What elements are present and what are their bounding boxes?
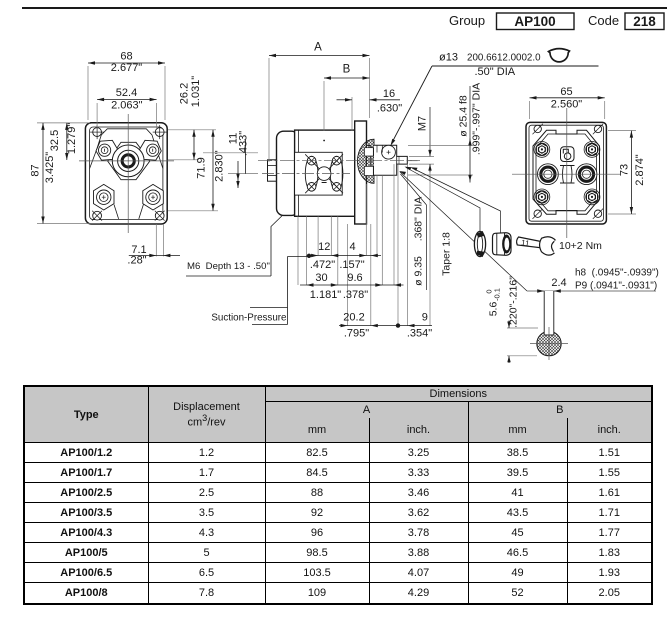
dim 26.2 ticks	[168, 130, 216, 160]
central boss hexagon	[108, 142, 150, 179]
gear plate octagon	[533, 130, 600, 214]
extension line 9.6 right	[393, 164, 395, 285]
dim o25.4 ticks	[408, 146, 473, 176]
svg-text:12: 12	[318, 241, 330, 253]
svg-text:16: 16	[383, 88, 395, 100]
dim 11	[227, 131, 249, 188]
extension line key slot front	[376, 175, 378, 255]
extension line flange face	[370, 224, 372, 326]
dim 12 text	[310, 241, 335, 271]
back view horizontal centerline	[512, 173, 620, 175]
shaft bore circles	[112, 145, 144, 177]
label Taper 1:8	[441, 232, 453, 276]
key slot edges on shaft	[377, 145, 382, 152]
bottom valley connectors	[114, 205, 143, 219]
svg-text:.157": .157"	[339, 259, 364, 271]
front view body outline	[85, 123, 167, 224]
casting outline	[90, 129, 163, 169]
svg-text:ø 25.4 f8: ø 25.4 f8	[458, 95, 470, 137]
wrench icon	[515, 232, 557, 256]
dim 4 text	[339, 241, 364, 271]
center bore circle	[317, 167, 331, 181]
woodruff key icon	[549, 49, 570, 62]
dim 7.1	[127, 244, 180, 267]
center web	[560, 166, 575, 184]
front view inner contour	[90, 127, 163, 220]
dim 9.6 arrows	[375, 283, 401, 286]
rear port boss	[268, 160, 277, 181]
port screw hole bottom-left	[307, 183, 316, 192]
dim 52.4	[97, 87, 157, 112]
dim 30 text	[310, 272, 342, 301]
svg-text:3.425": 3.425"	[44, 152, 56, 184]
svg-text:Group: Group	[449, 13, 485, 28]
stud nut bottom-right	[584, 189, 600, 205]
svg-text:.795": .795"	[344, 327, 369, 339]
dim 5.6 ticks	[507, 328, 538, 356]
svg-text:2.063": 2.063"	[111, 100, 143, 112]
svg-text:1.279": 1.279"	[66, 123, 78, 155]
dim 87	[30, 123, 57, 224]
dim 68	[88, 51, 165, 75]
leader o13 callout	[391, 51, 599, 146]
key detail centerlines	[530, 327, 568, 360]
dim row2 line	[300, 284, 404, 286]
svg-text:.378": .378"	[343, 289, 368, 301]
dim 9 arrow	[408, 324, 415, 327]
svg-text:200.6612.0002.0: 200.6612.0002.0	[467, 52, 541, 63]
back view body outline	[526, 122, 606, 224]
dim A	[269, 42, 370, 58]
svg-text:26.2: 26.2	[179, 83, 191, 104]
svg-text:M7: M7	[417, 116, 429, 131]
dim row1 line	[307, 255, 382, 257]
gear bore oval right	[330, 156, 343, 191]
corner screw hole bottom-right	[155, 211, 165, 221]
svg-text:ø 9.35: ø 9.35	[413, 256, 425, 286]
port markings	[322, 140, 327, 183]
svg-text:32.5: 32.5	[49, 130, 61, 151]
dim 65	[530, 86, 605, 111]
port screw hole top-left	[307, 156, 316, 165]
svg-text:1.181": 1.181"	[310, 289, 342, 301]
leader to nut	[411, 167, 501, 232]
svg-text:.368" DIA: .368" DIA	[413, 197, 425, 242]
extension line 30 right	[337, 216, 339, 285]
svg-text:.472": .472"	[310, 259, 335, 271]
dim 12 arrows	[311, 254, 338, 257]
leader to key detail	[399, 171, 527, 291]
svg-text:A: A	[314, 42, 322, 54]
port screw hole bottom-right	[332, 183, 341, 192]
leader to washer	[405, 167, 481, 232]
seal housing hatched section	[357, 139, 374, 183]
extension line 9 tail	[429, 172, 431, 325]
svg-text:M6 Depth 13 - .50": M6 Depth 13 - .50"	[187, 261, 270, 272]
X cross lines	[305, 154, 343, 193]
flange pilot boss	[367, 146, 371, 176]
svg-text:4: 4	[349, 241, 355, 253]
back view vertical centerline	[566, 108, 568, 238]
label 10+2 Nm	[559, 240, 602, 252]
stud nut bottom-left	[534, 189, 550, 205]
dim 5.6	[485, 276, 520, 363]
extension line 20.2 left	[347, 224, 349, 326]
leader M6	[271, 187, 312, 276]
lock washer icon	[474, 231, 485, 257]
port left	[538, 164, 559, 185]
svg-text:.999"-.997" DIA: .999"-.997" DIA	[471, 83, 483, 155]
extension line key slot rear	[381, 175, 383, 285]
corner screw hole top-right	[153, 125, 167, 139]
dim 87 extension ticks	[37, 123, 100, 224]
svg-text:h8 (.0945"-.0939"): h8 (.0945"-.0939")	[575, 268, 659, 279]
dim M7 ticks	[409, 156, 434, 164]
svg-text:2.830": 2.830"	[214, 150, 226, 182]
svg-text:2.874": 2.874"	[634, 154, 646, 186]
dim 68 extension lines	[88, 66, 165, 120]
svg-text:ø13: ø13	[439, 51, 458, 63]
svg-text:68: 68	[120, 51, 132, 63]
svg-text:52.4: 52.4	[116, 87, 137, 99]
stud nut top-left	[534, 142, 550, 158]
svg-text:71.9: 71.9	[196, 157, 208, 178]
extension line 4 left	[365, 184, 367, 256]
dim B	[324, 64, 370, 80]
dim 7.1 extension lines	[156, 224, 163, 256]
dim 9.6 text	[343, 272, 368, 301]
box 218	[625, 13, 664, 30]
back view inner contour	[529, 125, 603, 221]
label Suction-Pressure	[211, 254, 311, 325]
dim 52.4 extension lines	[97, 103, 157, 128]
svg-text:2.560": 2.560"	[551, 99, 583, 111]
extension line 12 right	[330, 216, 332, 255]
dim 16 extension line	[351, 97, 353, 131]
rear cover cap	[277, 131, 299, 215]
dim 71.9	[168, 130, 226, 211]
port screw hole top-right	[332, 156, 341, 165]
pump body (side)	[295, 130, 355, 216]
svg-text:.354": .354"	[407, 327, 432, 339]
keyway slot	[544, 291, 554, 335]
back corner screw bottom-left	[533, 209, 543, 219]
dim o25.4	[458, 83, 483, 183]
dim 11 ticks	[203, 153, 258, 174]
side view mesh centerline	[262, 173, 350, 175]
corner screw hole bottom-left	[92, 211, 102, 221]
front view vertical centerline	[127, 114, 129, 233]
stud nut top-right	[584, 142, 600, 158]
port right	[576, 164, 597, 185]
svg-text:9: 9	[422, 312, 428, 324]
dim B extension line	[323, 81, 325, 131]
plate inner contour	[536, 134, 597, 211]
dim 32.5	[49, 123, 78, 160]
svg-text:B: B	[343, 64, 351, 76]
svg-text:1.031": 1.031"	[190, 76, 202, 108]
dim 9 text	[407, 312, 432, 340]
logo mark	[561, 147, 575, 162]
corner screw hole top-left	[90, 125, 104, 139]
bottom-right hex plug boss	[143, 184, 164, 210]
extension line gear left	[297, 216, 299, 285]
box AP100	[497, 13, 575, 30]
dim 20.2 text	[343, 312, 369, 340]
shaft	[374, 145, 418, 175]
label Code	[588, 13, 619, 28]
extension line 12 left	[317, 216, 319, 255]
key detail shaft circle hatched	[537, 331, 561, 355]
mounting flange plate (side)	[355, 121, 367, 224]
dim 16	[337, 88, 403, 115]
dim 2.4 arrows	[537, 277, 566, 293]
svg-text:Code: Code	[588, 13, 619, 28]
dim 20.2 arrows	[341, 324, 378, 327]
dim row3 line	[339, 325, 432, 327]
svg-text:Taper 1:8: Taper 1:8	[441, 232, 453, 276]
top-left hex plug boss	[95, 140, 118, 160]
svg-text:Suction-Pressure: Suction-Pressure	[211, 313, 287, 324]
woodruff key in shaft	[382, 145, 396, 159]
svg-text:5.6: 5.6	[488, 302, 500, 317]
label h8 P9	[575, 268, 659, 292]
svg-text:.50" DIA: .50" DIA	[475, 66, 516, 78]
svg-text:AP100: AP100	[514, 14, 555, 29]
top-right hex plug boss	[139, 140, 162, 160]
front view horizontal centerline	[79, 160, 174, 162]
bottom-left hex plug boss	[94, 184, 115, 210]
top border line	[22, 7, 667, 9]
svg-text:-0.1: -0.1	[493, 288, 502, 301]
svg-text:73: 73	[619, 164, 631, 176]
dim M7	[417, 107, 432, 172]
back corner screw top-right	[593, 124, 603, 134]
svg-text:218: 218	[633, 14, 656, 29]
extension line 30 left	[306, 216, 308, 285]
dim 73 ticks	[608, 131, 636, 214]
label o9.35 DIA	[401, 174, 427, 290]
key detail datum line	[527, 290, 656, 292]
side view shaft centerline	[258, 160, 420, 162]
svg-text:.630": .630"	[377, 103, 402, 115]
extension line thread start	[397, 164, 399, 326]
svg-text:30: 30	[315, 272, 327, 284]
back corner screw top-left	[533, 124, 543, 134]
label Group	[449, 13, 485, 28]
svg-text:20.2: 20.2	[343, 312, 364, 324]
dim 4 arrows	[359, 254, 378, 257]
dim 26.2	[179, 76, 203, 160]
dim A extension line right	[369, 58, 371, 118]
label M6 depth	[186, 261, 271, 276]
extension line shaft end	[407, 164, 409, 326]
svg-text:.220"-.216": .220"-.216"	[508, 276, 520, 328]
svg-text:2.4: 2.4	[551, 277, 566, 289]
dim A extension line left	[268, 58, 270, 162]
dim 73	[619, 131, 647, 214]
svg-text:10+2 Nm: 10+2 Nm	[559, 240, 602, 252]
back corner screw bottom-right	[593, 209, 603, 219]
svg-text:P9 (.0941"-.0931"): P9 (.0941"-.0931")	[575, 281, 657, 292]
svg-text:87: 87	[30, 164, 42, 176]
dim 65 extension lines	[530, 101, 605, 119]
dim 30 arrows	[307, 283, 338, 286]
svg-text:65: 65	[560, 86, 572, 98]
svg-text:.28": .28"	[127, 255, 146, 267]
svg-text:.433": .433"	[238, 131, 250, 156]
hex nut icon	[493, 233, 512, 256]
gear bore oval left	[305, 156, 318, 191]
junction dot	[396, 323, 400, 327]
svg-text:9.6: 9.6	[347, 272, 362, 284]
port face plate	[295, 152, 343, 195]
svg-text:2.677": 2.677"	[111, 62, 143, 74]
